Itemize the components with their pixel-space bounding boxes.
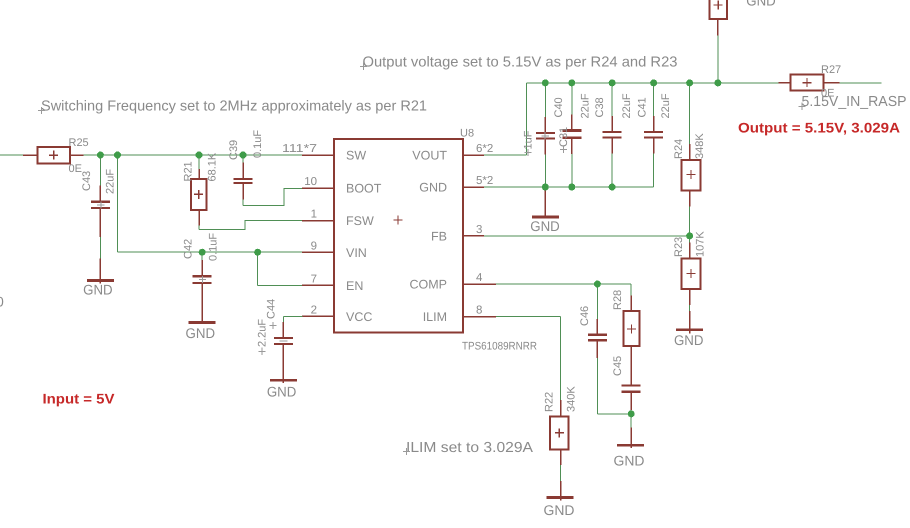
svg-text:VIN: VIN <box>346 246 367 260</box>
svg-text:VOUT: VOUT <box>412 149 447 163</box>
svg-text:GND: GND <box>530 218 560 234</box>
svg-text:0.1uF: 0.1uF <box>252 130 264 158</box>
svg-text:BOOT: BOOT <box>346 182 382 196</box>
svg-text:C42: C42 <box>183 239 195 259</box>
svg-text:GND: GND <box>674 332 704 348</box>
svg-text:4: 4 <box>476 272 483 284</box>
svg-text:9: 9 <box>311 240 317 252</box>
svg-text:10: 10 <box>304 176 317 188</box>
svg-text:7: 7 <box>311 273 317 285</box>
svg-text:1: 1 <box>311 209 317 221</box>
svg-text:22uF: 22uF <box>660 93 672 118</box>
svg-text:ILIM: ILIM <box>423 310 447 324</box>
svg-text:GND: GND <box>544 502 575 518</box>
svg-text:R21: R21 <box>183 161 195 181</box>
svg-text:C41: C41 <box>637 97 649 117</box>
svg-text:GND: GND <box>186 325 216 341</box>
svg-text:C40: C40 <box>553 97 565 117</box>
svg-text:3: 3 <box>476 224 482 236</box>
svg-text:8: 8 <box>476 305 482 317</box>
svg-text:C44: C44 <box>266 299 278 319</box>
svg-text:R24: R24 <box>673 139 685 159</box>
svg-text:VCC: VCC <box>346 310 372 324</box>
svg-text:348K: 348K <box>694 133 706 159</box>
svg-text:R25: R25 <box>69 137 89 149</box>
svg-text:0: 0 <box>0 294 4 310</box>
svg-text:EN: EN <box>346 279 363 293</box>
svg-text:6*2: 6*2 <box>476 143 493 155</box>
svg-text:GND: GND <box>83 282 113 298</box>
svg-text:R28: R28 <box>612 290 624 310</box>
svg-text:GND: GND <box>614 453 645 469</box>
svg-text:R22: R22 <box>544 392 556 412</box>
svg-text:ILIM set to 3.029A: ILIM set to 3.029A <box>406 440 533 456</box>
svg-text:SW: SW <box>346 149 366 163</box>
svg-text:22uF: 22uF <box>105 169 117 194</box>
svg-text:Switching Frequency set to 2MH: Switching Frequency set to 2MHz approxim… <box>41 99 427 115</box>
svg-text:TPS61089RNRR: TPS61089RNRR <box>462 341 537 353</box>
svg-text:5.15V_IN_RASP: 5.15V_IN_RASP <box>802 94 907 110</box>
svg-text:2.2uF: 2.2uF <box>257 319 269 347</box>
svg-text:340K: 340K <box>566 386 578 412</box>
svg-text:GND: GND <box>746 0 776 9</box>
svg-text:FSW: FSW <box>346 214 374 228</box>
svg-text:C46: C46 <box>579 306 591 326</box>
svg-text:0.1uF: 0.1uF <box>208 233 220 261</box>
svg-text:GND: GND <box>267 383 297 399</box>
svg-text:5*2: 5*2 <box>476 175 493 187</box>
svg-text:111*7: 111*7 <box>282 143 317 155</box>
svg-text:R27: R27 <box>821 64 841 76</box>
svg-text:U8: U8 <box>460 128 474 140</box>
svg-text:2: 2 <box>311 304 317 316</box>
svg-text:C31: C31 <box>558 127 570 147</box>
svg-text:Output = 5.15V, 3.029A: Output = 5.15V, 3.029A <box>738 119 900 135</box>
svg-text:Input = 5V: Input = 5V <box>43 391 116 407</box>
svg-text:107K: 107K <box>695 231 707 257</box>
svg-text:68.1K: 68.1K <box>207 152 219 181</box>
svg-text:1uF: 1uF <box>523 130 535 149</box>
svg-text:FB: FB <box>431 230 447 244</box>
svg-text:C43: C43 <box>81 171 93 191</box>
svg-text:0E: 0E <box>69 163 82 175</box>
svg-text:22uF: 22uF <box>580 93 592 118</box>
svg-text:R23: R23 <box>673 237 685 257</box>
svg-text:C45: C45 <box>612 356 624 376</box>
svg-text:22uF: 22uF <box>621 93 633 118</box>
svg-text:C38: C38 <box>594 97 606 117</box>
svg-text:C39: C39 <box>228 140 240 160</box>
svg-text:Output voltage set to 5.15V as: Output voltage set to 5.15V as per R24 a… <box>363 55 678 71</box>
svg-text:COMP: COMP <box>410 278 448 292</box>
svg-text:GND: GND <box>419 181 447 195</box>
